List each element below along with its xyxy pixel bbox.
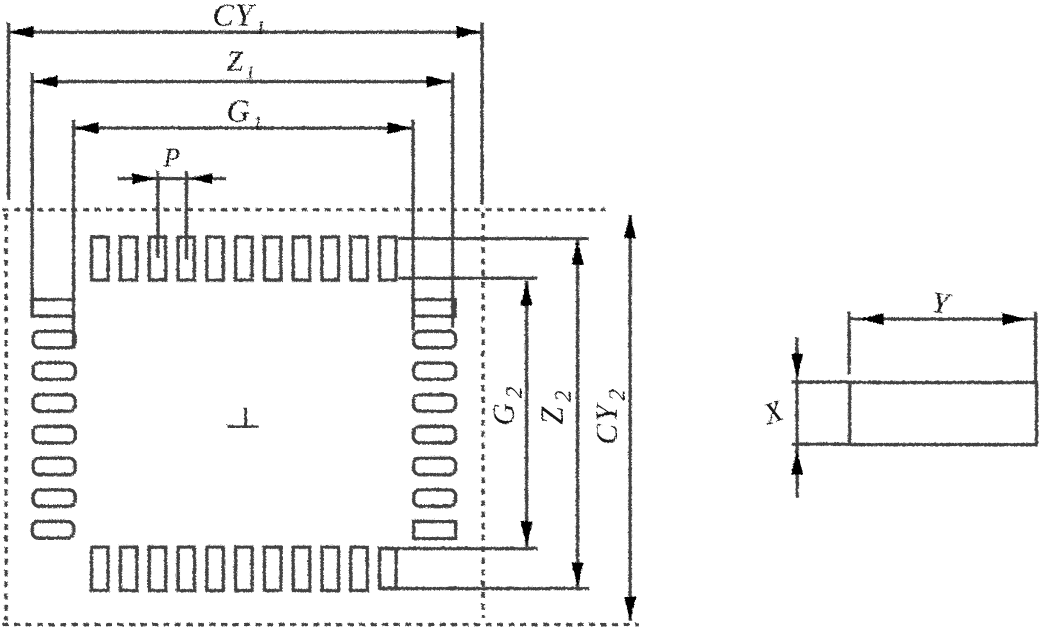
svg-text:G2: G2 (485, 383, 526, 425)
G2 top arrow (520, 281, 532, 305)
Y right extension line (1033, 311, 1036, 381)
G1 left arrow (74, 122, 98, 134)
courtyard left dashed line (4, 213, 7, 620)
X bottom arrow (791, 450, 803, 474)
CY1 right arrow (456, 26, 480, 38)
dimension Z1 line (32, 79, 453, 82)
top pad row (11 pads) (91, 237, 108, 280)
svg-text:Z2: Z2 (533, 387, 575, 424)
dimension P line (117, 176, 226, 179)
dimension CY2 line (628, 214, 631, 620)
courtyard right dashed line (481, 212, 484, 617)
svg-text:G1: G1 (226, 92, 262, 134)
G2 bottom arrow (520, 521, 532, 545)
courtyard bottom dashed line (2, 622, 638, 625)
G1 left extension line (71, 119, 74, 348)
CY1 left extension line (6, 22, 9, 199)
arrowheads (9, 26, 636, 621)
Z2 top extension line (398, 236, 588, 239)
right pad column (8 pads) (413, 299, 455, 316)
P right extension line (184, 170, 187, 259)
G1 right extension line (411, 119, 414, 330)
Z2 top arrow (571, 240, 583, 264)
courtyard top dashed line (2, 207, 605, 210)
Y right arrow (1002, 313, 1026, 325)
CY2 top arrow (624, 214, 636, 238)
X bottom extension line (791, 442, 849, 445)
G1 right arrow (387, 122, 411, 134)
svg-text:Y: Y (929, 285, 953, 320)
G2 bottom extension line (379, 546, 537, 549)
bottom-right corner pad (379, 548, 396, 588)
P left arrow (132, 173, 154, 184)
dimension Z2 line (575, 239, 578, 587)
dimension X line (795, 337, 798, 497)
dimension CY1 line (8, 30, 481, 33)
X top arrow (791, 353, 803, 377)
Z1 left extension line (30, 72, 33, 315)
CY1 right extension line (480, 22, 483, 204)
Y left extension line (847, 311, 850, 374)
X top extension line (791, 380, 849, 383)
Z1 left arrow (33, 75, 57, 87)
pads (32, 237, 456, 591)
CY2 bottom arrow (624, 596, 636, 620)
Z2 bottom arrow (571, 562, 583, 586)
detail drawing: pad outline (791, 311, 1036, 497)
dimension G2 line (524, 280, 527, 546)
P left extension line (156, 170, 159, 257)
bottom pad row (11 pads) (91, 547, 108, 591)
Z1 right arrow (426, 75, 450, 87)
G2 top extension line (398, 276, 537, 279)
CY1 left arrow (9, 26, 33, 38)
svg-text:Z1: Z1 (226, 45, 255, 83)
Y left arrow (859, 313, 883, 325)
P right arrow (190, 173, 212, 184)
dimension G1 line (73, 126, 413, 129)
svg-text:P: P (162, 142, 180, 172)
dimension Y line (849, 317, 1036, 320)
Z1 right extension line (450, 72, 453, 327)
center origin mark (227, 407, 258, 427)
svg-text:CY2: CY2 (588, 387, 629, 444)
left pad column (8 pads) (32, 299, 74, 316)
Z2 bottom extension line (379, 586, 589, 589)
svg-text:X: X (758, 393, 788, 431)
